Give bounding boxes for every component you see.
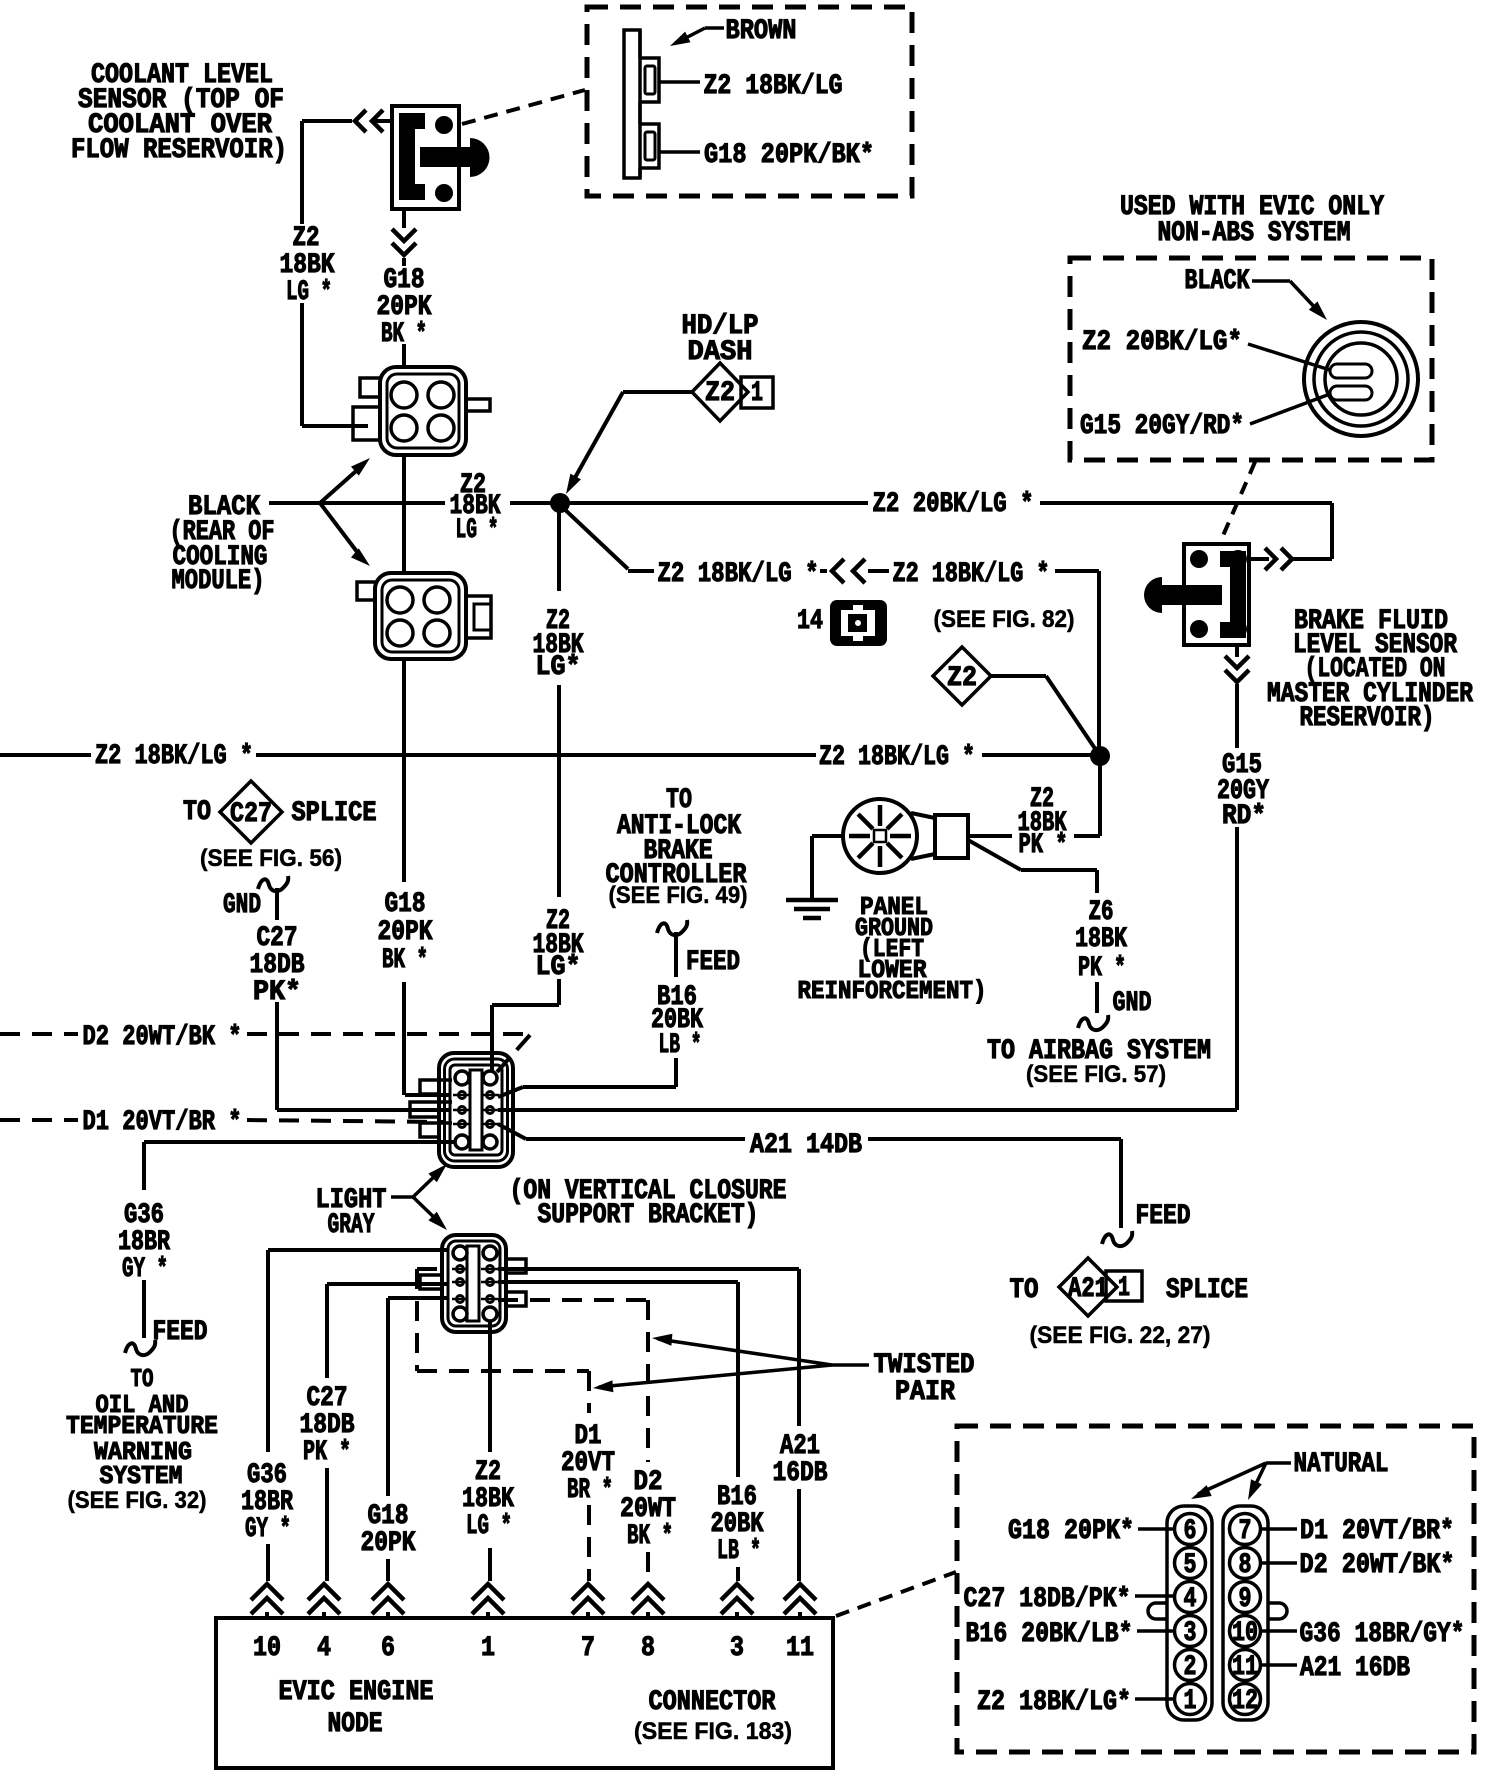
svg-text:LG*: LG* [536, 952, 581, 983]
svg-text:1: 1 [751, 378, 763, 409]
svg-text:G18 20PK*: G18 20PK* [1008, 1516, 1134, 1547]
svg-text:PK *: PK * [1019, 830, 1068, 861]
svg-text:4: 4 [317, 1633, 331, 1664]
svg-text:2: 2 [1184, 1652, 1197, 1683]
svg-text:Z2: Z2 [947, 663, 977, 694]
svg-text:(SEE FIG. 183): (SEE FIG. 183) [634, 1718, 792, 1745]
svg-text:(SEE FIG. 22, 27): (SEE FIG. 22, 27) [1030, 1322, 1211, 1349]
svg-text:18BK: 18BK [1075, 924, 1127, 955]
svg-text:GND: GND [1113, 988, 1152, 1019]
svg-text:C27 18DB/PK*: C27 18DB/PK* [964, 1584, 1131, 1615]
svg-text:GND: GND [223, 890, 261, 921]
svg-text:PK *: PK * [1078, 953, 1126, 984]
svg-text:1: 1 [481, 1633, 495, 1664]
svg-text:SPLICE: SPLICE [292, 798, 377, 829]
svg-text:NATURAL: NATURAL [1294, 1449, 1389, 1480]
svg-text:Z2 18BK/LG *: Z2 18BK/LG * [893, 559, 1050, 590]
svg-text:MODULE): MODULE) [172, 566, 265, 597]
svg-text:BROWN: BROWN [726, 16, 797, 47]
svg-text:D1 20VT/BR *: D1 20VT/BR * [83, 1107, 242, 1138]
svg-text:Z2 18BK/LG *: Z2 18BK/LG * [819, 742, 975, 773]
svg-text:12: 12 [1232, 1686, 1258, 1717]
svg-text:EVIC ENGINE: EVIC ENGINE [279, 1677, 434, 1708]
svg-text:20PK: 20PK [378, 917, 433, 948]
svg-text:(SEE FIG. 82): (SEE FIG. 82) [934, 606, 1075, 633]
svg-text:(SEE FIG. 56): (SEE FIG. 56) [200, 845, 342, 872]
svg-text:Z2 18BK/LG*: Z2 18BK/LG* [977, 1687, 1131, 1718]
svg-text:6: 6 [1184, 1516, 1197, 1547]
svg-text:CONNECTOR: CONNECTOR [649, 1687, 776, 1718]
svg-text:8: 8 [1239, 1550, 1252, 1581]
svg-text:BR *: BR * [567, 1475, 613, 1506]
svg-text:SPLICE: SPLICE [1166, 1275, 1248, 1306]
svg-text:LG *: LG * [286, 277, 332, 308]
svg-text:GY *: GY * [245, 1514, 291, 1545]
svg-text:D2 20WT/BK *: D2 20WT/BK * [83, 1022, 242, 1053]
svg-text:G18 20PK/BK*: G18 20PK/BK* [704, 140, 874, 171]
svg-text:8: 8 [641, 1633, 655, 1664]
svg-text:10: 10 [1232, 1618, 1258, 1649]
svg-text:RD*: RD* [1222, 801, 1266, 832]
svg-text:(SEE FIG. 57): (SEE FIG. 57) [1026, 1061, 1166, 1088]
svg-text:11: 11 [786, 1633, 814, 1664]
svg-text:B16 20BK/LB*: B16 20BK/LB* [966, 1619, 1133, 1650]
svg-text:PAIR: PAIR [895, 1377, 955, 1408]
svg-text:BLACK: BLACK [1185, 266, 1250, 297]
svg-text:NON-ABS SYSTEM: NON-ABS SYSTEM [1158, 218, 1351, 249]
svg-text:SUPPORT BRACKET): SUPPORT BRACKET) [538, 1200, 759, 1231]
svg-text:Z2 18BK/LG *: Z2 18BK/LG * [658, 559, 819, 590]
svg-text:(SEE FIG. 32): (SEE FIG. 32) [68, 1487, 207, 1514]
svg-text:20PK: 20PK [361, 1528, 416, 1559]
svg-text:10: 10 [253, 1633, 281, 1664]
svg-text:(SEE FIG. 49): (SEE FIG. 49) [609, 882, 748, 909]
svg-text:G15 20GY/RD*: G15 20GY/RD* [1080, 411, 1244, 442]
svg-text:7: 7 [581, 1633, 595, 1664]
svg-text:G36 18BR/GY*: G36 18BR/GY* [1300, 1619, 1465, 1650]
svg-text:FEED: FEED [686, 947, 740, 978]
svg-text:TEMPERATURE: TEMPERATURE [66, 1412, 218, 1441]
svg-text:D1 20VT/BR*: D1 20VT/BR* [1300, 1516, 1454, 1547]
svg-text:9: 9 [1239, 1584, 1252, 1615]
svg-text:FEED: FEED [153, 1317, 208, 1348]
svg-text:LB *: LB * [659, 1030, 702, 1061]
svg-text:TO: TO [131, 1365, 154, 1394]
svg-text:G18: G18 [385, 889, 426, 920]
svg-text:3: 3 [1184, 1618, 1197, 1649]
svg-text:Z2 18BK/LG: Z2 18BK/LG [704, 71, 843, 102]
svg-text:14: 14 [797, 606, 823, 637]
svg-text:LB *: LB * [717, 1536, 761, 1567]
svg-text:16DB: 16DB [773, 1458, 828, 1489]
svg-text:A21 16DB: A21 16DB [1300, 1653, 1410, 1684]
svg-text:REINFORCEMENT): REINFORCEMENT) [798, 977, 987, 1006]
svg-text:FEED: FEED [1136, 1201, 1191, 1232]
svg-text:LG *: LG * [466, 1511, 512, 1542]
svg-text:Z2 20BK/LG *: Z2 20BK/LG * [873, 489, 1034, 520]
svg-text:1: 1 [1184, 1686, 1197, 1717]
svg-text:1: 1 [1118, 1273, 1130, 1304]
svg-text:5: 5 [1184, 1550, 1197, 1581]
svg-text:LG*: LG* [536, 652, 581, 683]
svg-text:FLOW RESERVOIR): FLOW RESERVOIR) [71, 135, 287, 166]
svg-text:C27: C27 [230, 799, 272, 830]
svg-text:7: 7 [1239, 1516, 1252, 1547]
svg-text:3: 3 [730, 1633, 744, 1664]
svg-text:BK *: BK * [627, 1521, 673, 1552]
svg-text:6: 6 [381, 1633, 395, 1664]
svg-text:NODE: NODE [328, 1709, 383, 1740]
svg-text:A21 14DB: A21 14DB [750, 1130, 862, 1161]
svg-text:TO: TO [1010, 1275, 1039, 1306]
svg-text:RESERVOIR): RESERVOIR) [1300, 703, 1435, 734]
svg-text:TO: TO [183, 797, 211, 828]
svg-text:Z2 18BK/LG *: Z2 18BK/LG * [95, 741, 253, 772]
svg-text:PK *: PK * [303, 1437, 351, 1468]
svg-text:D2 20WT/BK*: D2 20WT/BK* [1300, 1550, 1455, 1581]
svg-text:A21: A21 [1068, 1274, 1108, 1305]
svg-text:4: 4 [1184, 1584, 1197, 1615]
svg-text:Z2: Z2 [705, 378, 735, 409]
svg-text:BK *: BK * [382, 945, 428, 976]
svg-text:LG *: LG * [456, 515, 499, 546]
svg-text:GRAY: GRAY [328, 1210, 375, 1241]
svg-text:11: 11 [1232, 1652, 1258, 1683]
svg-text:Z2 20BK/LG*: Z2 20BK/LG* [1082, 327, 1242, 358]
